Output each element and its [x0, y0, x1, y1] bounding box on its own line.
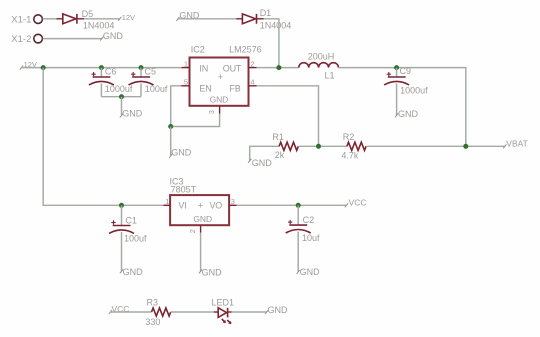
svg-text:200uH: 200uH: [308, 52, 335, 62]
pin number 2 (IC2): [250, 59, 254, 68]
net label 12V (rail): [20, 60, 37, 70]
value 1000uf (C6): [105, 84, 133, 94]
svg-text:GND: GND: [202, 268, 223, 278]
svg-text:X1-1: X1-1: [11, 15, 31, 26]
svg-text:R2: R2: [343, 132, 355, 142]
resistor R3: [152, 308, 171, 316]
capacitor C1: [109, 205, 134, 271]
svg-text:LM2576: LM2576: [229, 44, 262, 54]
diode D5: [57, 14, 85, 24]
connector pin X1-2: [11, 34, 42, 45]
svg-text:VI: VI: [178, 201, 186, 211]
value 100uf (C5): [145, 84, 168, 94]
wire D5 cathode to 12V label: [84, 18, 120, 20]
svg-text:10uf: 10uf: [302, 233, 320, 243]
label L1: [325, 71, 335, 81]
inductor L1: [299, 63, 339, 68]
capacitor C9: [384, 68, 409, 116]
svg-text:GND: GND: [123, 267, 144, 277]
junction C2 on output rail: [296, 203, 301, 208]
wire GND label to D1 anode: [178, 18, 236, 20]
label LED1: [212, 298, 235, 308]
ground GND (IC2): [169, 148, 192, 159]
wire FB to divider node: [257, 86, 319, 147]
svg-text:1000uf: 1000uf: [105, 84, 133, 94]
value 7805T: [171, 185, 197, 195]
svg-text:OUT: OUT: [223, 63, 242, 73]
ground GND (R1): [248, 158, 272, 168]
label C1: [125, 215, 137, 225]
wire EN to gnd junction: [171, 86, 182, 127]
wire R1 to R2: [298, 145, 347, 147]
symbol + mark (IC2): [218, 72, 223, 82]
pin stub IC2 pin4 FB: [249, 85, 257, 87]
pin stub IC3 pin1 VI: [164, 204, 171, 206]
svg-text:+: +: [198, 200, 203, 210]
wire IC2 pin3 to gnd junction: [171, 114, 220, 127]
regulator IC3 box: [170, 195, 229, 225]
ground GND (C2): [297, 267, 321, 277]
capacitor C5: [129, 68, 154, 97]
op-amp U1 / regulator IC2 box: [190, 58, 249, 106]
svg-text:3: 3: [231, 197, 235, 206]
svg-text:2: 2: [188, 229, 197, 233]
wire junction to GND label: [170, 127, 172, 157]
net label 12V (top): [118, 13, 135, 22]
svg-text:GND: GND: [103, 31, 124, 41]
value 4.7k (R2): [341, 151, 359, 161]
svg-text:FB: FB: [229, 84, 240, 94]
svg-text:VO: VO: [210, 201, 223, 211]
label C6: [105, 67, 117, 77]
value 1N4004 (D1): [260, 21, 292, 31]
pin label GND (IC3 internal): [193, 214, 212, 224]
wire OUT to inductor: [257, 67, 299, 69]
wire inductor to VBAT corner: [338, 68, 465, 147]
svg-text:IN: IN: [199, 63, 208, 73]
label D1: [260, 8, 272, 18]
pin number 3 (IC3): [231, 197, 235, 206]
svg-text:5: 5: [184, 78, 188, 87]
svg-text:2: 2: [250, 59, 254, 68]
pin number 2 (IC3): [188, 229, 197, 233]
value 200uH (L1): [308, 52, 335, 62]
svg-text:1: 1: [184, 59, 188, 68]
pin number 4 (IC2): [250, 78, 254, 87]
pin number 1 (IC2): [184, 59, 188, 68]
svg-text:GND: GND: [268, 305, 289, 315]
label R1: [272, 132, 284, 142]
label C5: [145, 67, 157, 77]
svg-text:1N4004: 1N4004: [260, 21, 292, 31]
junction C9 on rail: [394, 65, 399, 70]
svg-text:GND: GND: [398, 109, 419, 119]
net label VBAT: [503, 139, 528, 149]
resistor R2: [347, 142, 366, 150]
connector pin X1-1: [11, 15, 42, 26]
pin stub IC2 pin1 IN: [182, 67, 190, 69]
value LM2576: [229, 44, 262, 54]
svg-text:C2: C2: [303, 215, 315, 225]
svg-text:+: +: [218, 72, 223, 82]
wire VCC to R3: [110, 311, 151, 313]
svg-text:1: 1: [165, 197, 169, 206]
label R2: [343, 132, 355, 142]
pin stub IC2 pin2 OUT: [249, 67, 257, 69]
junction C6/C5 gnd: [119, 94, 124, 99]
pin label OUT: [223, 63, 242, 73]
svg-text:D1: D1: [260, 8, 272, 18]
ground GND (C6/C5): [120, 109, 143, 119]
svg-text:100uf: 100uf: [145, 84, 168, 94]
svg-text:IC2: IC2: [191, 44, 205, 54]
wire left vertical 12V to 7805 input: [43, 68, 163, 206]
pin label IN: [199, 63, 208, 73]
value 2k (R1): [275, 150, 285, 160]
svg-text:GND: GND: [193, 214, 212, 224]
junction C6 on rail: [99, 65, 104, 70]
label IC2: [191, 44, 205, 54]
svg-text:C5: C5: [145, 67, 157, 77]
junction 12V rail / left branch: [41, 65, 46, 70]
LED LED1: [214, 308, 232, 324]
label D5: [82, 9, 94, 19]
pin number 3 (IC2): [207, 110, 216, 114]
junction EN/GND: [168, 124, 173, 129]
net label GND (X1-2): [100, 31, 123, 41]
ground GND (IC3 pin2): [199, 268, 222, 278]
net label VCC (LED row): [109, 304, 130, 314]
wire 12V rail to IC2 IN: [22, 67, 182, 69]
svg-text:4.7k: 4.7k: [341, 151, 359, 161]
svg-text:1000uf: 1000uf: [400, 86, 428, 96]
svg-text:GND: GND: [300, 267, 321, 277]
wire C6/C5 ground bus: [101, 96, 141, 98]
value 10uf (C2): [302, 233, 320, 243]
pin label GND (IC2 internal): [210, 95, 229, 105]
svg-text:X1-2: X1-2: [11, 34, 31, 45]
pin stub IC3 pin3 VO: [229, 204, 236, 206]
wire D1 cathode to OUT node: [264, 19, 279, 68]
wire IC3 pin2 to GND: [200, 233, 202, 272]
wire X1-2 to GND label: [43, 38, 102, 40]
wire gnd bus drop: [121, 97, 123, 116]
svg-text:7805T: 7805T: [171, 185, 197, 195]
label R3: [147, 298, 159, 308]
svg-text:EN: EN: [199, 84, 211, 94]
svg-text:VCC: VCC: [349, 198, 367, 208]
pin stub IC2 pin3 GND: [219, 106, 221, 114]
wire X1-1 to D5 anode: [43, 18, 57, 20]
svg-text:330: 330: [145, 317, 160, 327]
resistor R1: [279, 142, 298, 150]
wire R1 gnd drop: [250, 146, 279, 161]
svg-text:LED1: LED1: [212, 298, 235, 308]
svg-text:C9: C9: [400, 66, 412, 76]
pin stub IC2 pin5 EN: [182, 85, 190, 87]
wire R3 to LED1: [171, 311, 214, 313]
svg-text:C6: C6: [105, 67, 117, 77]
net label GND (D1 anode): [176, 10, 200, 21]
label C9: [400, 66, 412, 76]
svg-text:D5: D5: [82, 9, 94, 19]
svg-text:100uf: 100uf: [124, 233, 147, 243]
value 1000uf (C9): [400, 86, 428, 96]
svg-text:R3: R3: [147, 298, 159, 308]
diode D1: [236, 14, 263, 24]
svg-text:GND: GND: [171, 148, 192, 158]
junction OUT / D1: [276, 65, 281, 70]
svg-text:12V: 12V: [122, 13, 135, 22]
svg-text:GND: GND: [122, 109, 143, 119]
value 100uf (C1): [124, 233, 147, 243]
svg-text:3: 3: [207, 110, 216, 114]
pin number 5 (IC2): [184, 78, 188, 87]
net label VCC (IC3 output): [345, 198, 367, 208]
svg-text:1N4004: 1N4004: [83, 20, 115, 30]
svg-text:L1: L1: [325, 71, 335, 81]
ground GND (C9): [395, 109, 419, 119]
svg-text:GND: GND: [252, 158, 273, 168]
svg-text:2k: 2k: [275, 150, 285, 160]
capacitor C6: [89, 68, 114, 97]
pin number 1 (IC3): [165, 197, 169, 206]
pin label VI: [178, 201, 186, 211]
svg-text:GND: GND: [210, 95, 229, 105]
capacitor C2: [286, 205, 311, 272]
pin label FB: [229, 84, 240, 94]
wire IC3 VO to VCC: [237, 204, 347, 206]
junction C5 on rail: [139, 65, 144, 70]
pin label VO: [210, 201, 223, 211]
symbol + mark (IC3): [198, 200, 203, 210]
junction C1 on input rail: [119, 203, 124, 208]
wire R2 to VBAT: [366, 145, 505, 147]
svg-text:4: 4: [250, 78, 254, 87]
label C2: [303, 215, 315, 225]
pin label EN: [199, 84, 211, 94]
svg-text:R1: R1: [272, 132, 284, 142]
value 330 (R3): [145, 317, 160, 327]
junction VBAT column: [463, 144, 468, 149]
wire LED1 to GND: [232, 311, 267, 313]
pin stub IC3 pin2 GND: [200, 225, 202, 232]
svg-text:VBAT: VBAT: [506, 139, 528, 149]
ground GND (C1): [120, 267, 143, 277]
label IC3: [170, 177, 184, 187]
junction FB divider: [316, 144, 321, 149]
svg-text:C1: C1: [125, 215, 137, 225]
value 1N4004 (D5): [83, 20, 115, 30]
ground GND (LED row): [265, 305, 288, 315]
